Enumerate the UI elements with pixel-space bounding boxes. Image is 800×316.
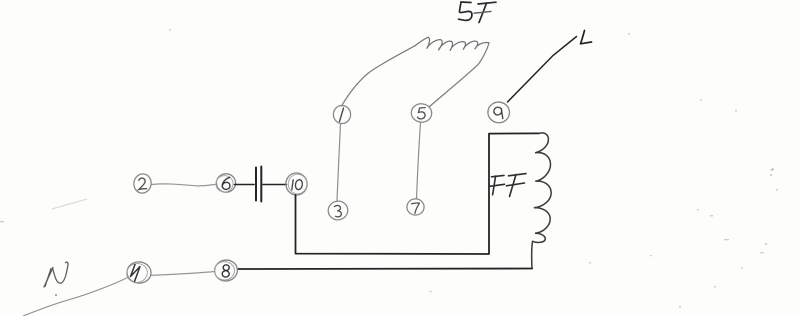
label L xyxy=(581,31,592,44)
node 9 xyxy=(487,101,511,124)
node 5 xyxy=(411,103,433,123)
capacitor plates xyxy=(256,167,261,202)
node 6 xyxy=(214,174,235,194)
wire node1 to SF coil xyxy=(342,46,416,106)
wire node5 to node7 xyxy=(417,123,421,199)
wire node10 down and bus right and up xyxy=(296,133,540,254)
wire node1 to node3 xyxy=(337,124,341,201)
wire node2 to node6 xyxy=(152,184,218,186)
coil SF xyxy=(415,37,489,51)
label SF xyxy=(459,2,497,23)
wire capacitor to node10 xyxy=(263,184,287,186)
wire SF coil to node5 xyxy=(429,43,489,107)
node 1 xyxy=(333,105,352,125)
node 3 xyxy=(327,200,349,221)
coil FF xyxy=(533,133,552,243)
node 2 xyxy=(132,173,152,195)
label N xyxy=(44,262,68,287)
wire node6 to capacitor xyxy=(235,184,255,186)
wire node4 to N (mains) xyxy=(24,278,128,316)
wire node9 to L xyxy=(508,37,577,103)
node 10 xyxy=(284,171,309,196)
wire node8 to node4 xyxy=(152,272,215,276)
label FF xyxy=(490,174,526,197)
node 8 xyxy=(213,259,238,283)
bottom bus wire to node 8 xyxy=(238,268,533,271)
node 7 xyxy=(407,199,424,215)
wire FF coil bottom down xyxy=(531,241,534,268)
node 4 xyxy=(125,261,152,285)
